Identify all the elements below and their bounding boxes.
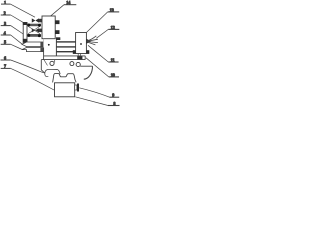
column right edge bbox=[55, 39, 57, 56]
tool box bbox=[55, 83, 75, 97]
feed rod upper end cap bbox=[40, 42, 43, 47]
leader 7 bbox=[11, 68, 55, 90]
hose fan bbox=[87, 36, 98, 45]
motor right tab upper bbox=[55, 20, 59, 24]
valve foot bbox=[77, 56, 82, 60]
leader 2 bbox=[11, 15, 24, 23]
carriage left profile bbox=[41, 60, 45, 74]
bolt bowtie upper bbox=[32, 18, 39, 22]
column pivot dot bbox=[48, 44, 50, 46]
bolt hole left bbox=[50, 61, 54, 65]
leader 12 bbox=[96, 29, 108, 38]
feed rod upper bbox=[22, 42, 43, 47]
callout 12 bbox=[96, 25, 119, 39]
valve stem bbox=[78, 54, 80, 57]
callout 3 bbox=[1, 21, 24, 34]
callout 14 bbox=[49, 0, 77, 18]
shelf arc bbox=[84, 66, 93, 79]
plate bottom cap bbox=[23, 39, 27, 43]
small bolt circle bbox=[76, 62, 80, 66]
svg-text:3: 3 bbox=[4, 21, 6, 26]
feed rod lower bbox=[22, 48, 43, 52]
leader 8 bbox=[75, 97, 108, 106]
side clamp bar bbox=[77, 84, 79, 92]
feed rod lower end cap bbox=[40, 48, 43, 52]
leader 13 bbox=[86, 12, 107, 33]
callout 5 bbox=[1, 40, 23, 50]
motor left tab upper bbox=[38, 19, 42, 23]
clamp sigma profile bbox=[53, 74, 77, 83]
bolt hole right bbox=[70, 62, 74, 66]
callout 13 bbox=[86, 7, 119, 32]
callout 2 bbox=[1, 11, 24, 23]
valve block bbox=[76, 33, 87, 54]
motor block bbox=[42, 16, 55, 39]
side clamp bolt bbox=[75, 85, 77, 90]
valve lower tab right bbox=[86, 50, 89, 54]
leader 6 bbox=[11, 60, 44, 73]
rail 2 bbox=[56, 46, 75, 47]
callout 8 bbox=[75, 97, 119, 106]
callout 9 bbox=[79, 88, 119, 98]
callout 7 bbox=[1, 64, 55, 91]
carriage chamfer bbox=[44, 60, 48, 66]
valve lower tab left bbox=[73, 50, 76, 54]
motor right tab lower bbox=[55, 30, 59, 34]
shelf arm bbox=[80, 65, 92, 67]
callout 6 bbox=[1, 55, 44, 73]
bracket bottom bar bbox=[27, 34, 41, 37]
callout 1 bbox=[1, 0, 35, 17]
plate top cap bbox=[23, 22, 27, 25]
column left edge bbox=[43, 39, 45, 48]
callout 10 bbox=[86, 58, 119, 78]
rail 3 bbox=[56, 51, 75, 52]
rail 1 bbox=[56, 41, 75, 42]
callout 11 bbox=[88, 45, 119, 62]
band tick bbox=[54, 60, 56, 63]
leader 11 bbox=[88, 45, 108, 62]
leader 14 bbox=[49, 5, 65, 18]
leader 3 bbox=[11, 26, 24, 34]
leader 9 bbox=[79, 88, 109, 97]
bracket cross brace bbox=[28, 26, 40, 34]
hose boot bbox=[86, 39, 90, 44]
pod boss bbox=[45, 69, 60, 76]
motor left tab lower bbox=[38, 29, 42, 32]
callout 4 bbox=[1, 30, 23, 44]
bolt bowtie lower bbox=[32, 28, 39, 32]
leader 4 bbox=[11, 35, 23, 44]
table band bbox=[41, 56, 85, 60]
leader 5 bbox=[11, 44, 23, 49]
mounting plate bbox=[23, 23, 27, 43]
column top-right stub bbox=[56, 37, 60, 40]
leader 1 bbox=[10, 4, 35, 17]
leader 10 bbox=[86, 58, 109, 77]
bracket top bar bbox=[27, 24, 41, 27]
valve dot bbox=[80, 43, 82, 45]
bracket corner bolts bbox=[27, 24, 41, 38]
